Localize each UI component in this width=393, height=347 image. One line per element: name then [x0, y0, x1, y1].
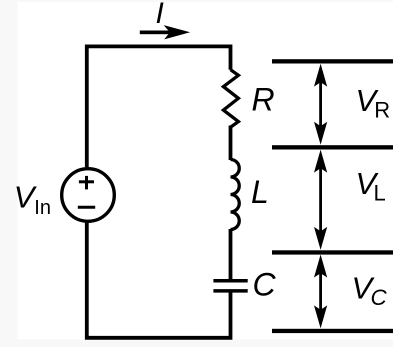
svg-text:I: I: [156, 0, 164, 30]
measurement bar 1: [272, 59, 393, 63]
wire: left + top + right down to resistor: [87, 46, 231, 167]
svg-text:R: R: [374, 98, 390, 123]
svg-text:R: R: [252, 82, 275, 118]
measurement bar 3: [272, 250, 393, 254]
arrow V_L (double-headed): [314, 150, 327, 250]
svg-text:L: L: [251, 174, 269, 210]
measurement bar 4: [272, 329, 393, 333]
capacitor C (plates): [213, 281, 247, 291]
minus sign: [78, 206, 95, 209]
resistor R (zigzag): [223, 70, 238, 128]
arrow V_C (double-headed): [314, 255, 327, 329]
current arrow: [140, 25, 190, 39]
svg-text:C: C: [253, 267, 277, 303]
svg-text:C: C: [371, 285, 388, 310]
wire: resistor to inductor: [229, 126, 233, 161]
inductor L (coil): [231, 160, 240, 230]
arrow V_R (double-headed): [314, 64, 327, 145]
measurement bar 2: [272, 145, 393, 149]
voltage source V_In (circle): [62, 169, 115, 222]
wire: inductor to capacitor: [229, 229, 233, 281]
plus sign: [79, 176, 94, 190]
svg-text:L: L: [374, 181, 386, 206]
wire: capacitor to bottom, bottom wire, left wire up to source: [87, 223, 231, 338]
svg-text:In: In: [34, 197, 51, 219]
